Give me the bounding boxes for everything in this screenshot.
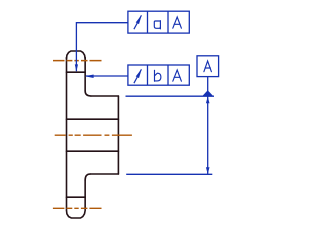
bottom tangent line [67,196,86,198]
leader from FCF2 [86,75,128,77]
arrowhead leader2 [85,75,94,79]
datum triangle [202,90,214,96]
arrowhead leader1 [75,64,78,71]
centerline bottom [53,207,102,209]
centerline middle [55,134,132,136]
top tangent line [67,71,86,73]
runout symbol FCF2 [134,69,142,83]
bottom dome of part [67,211,86,219]
dim arrow down [206,167,210,174]
datum label A [204,61,212,72]
flange right edge [117,96,119,174]
runout symbol FCF1 [134,15,142,29]
top dome of part [67,51,86,59]
bottom fillet [85,174,90,180]
label b FCF2 [155,70,161,81]
leader from FCF1 [76,23,128,72]
feature control frame FCF1 [128,11,189,33]
interior line lower [67,150,119,152]
flange bottom edge [90,173,118,175]
feature control frame FCF2 [128,65,189,85]
part left edge [66,58,68,211]
part right edge upper [84,58,86,91]
label A FCF1 [173,17,182,28]
extension line bottom [126,173,212,175]
dim arrow up [206,97,210,104]
label A FCF2 [173,70,182,81]
flange top edge [91,95,119,97]
interior line upper [67,118,119,120]
datum box A [197,56,219,77]
centerline top [53,60,102,62]
part right edge lower [84,180,86,210]
datum stem [207,77,209,91]
extension line top [126,95,215,97]
label a FCF1 [154,21,160,29]
dimension line vertical [207,96,209,174]
top fillet [85,91,91,96]
